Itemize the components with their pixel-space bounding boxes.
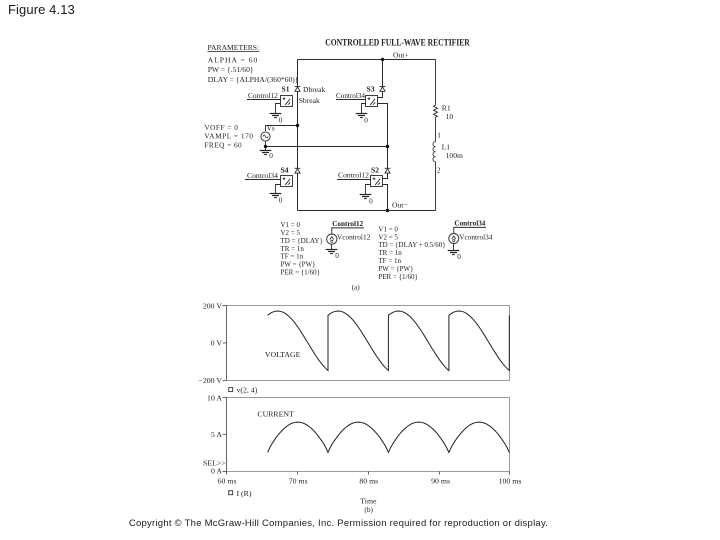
svg-text:Control34: Control34 bbox=[454, 219, 485, 228]
wire: top rail bbox=[298, 59, 436, 61]
svg-text:VAMPL = 170: VAMPL = 170 bbox=[204, 132, 253, 141]
svg-text:0: 0 bbox=[279, 116, 283, 125]
svg-text:SEL>>: SEL>> bbox=[203, 459, 226, 468]
figure caption bbox=[8, 2, 75, 17]
svg-text:CONTROLLED FULL-WAVE RECTIFIER: CONTROLLED FULL-WAVE RECTIFIER bbox=[325, 39, 470, 49]
svg-text:100m: 100m bbox=[446, 151, 463, 160]
svg-text:Control34: Control34 bbox=[247, 172, 278, 180]
svg-text:10: 10 bbox=[446, 112, 454, 121]
svg-text:PW = {.51/60}: PW = {.51/60} bbox=[208, 65, 254, 74]
switch S3 bbox=[366, 96, 378, 107]
diode D4 bbox=[295, 168, 301, 173]
svg-text:10 A: 10 A bbox=[207, 393, 222, 402]
svg-text:I (R): I (R) bbox=[237, 489, 252, 498]
wire: right leg upper (S3 branch) bbox=[378, 60, 383, 98]
svg-text:V1 = 0: V1 = 0 bbox=[378, 225, 398, 233]
diode D1 Dbreak bbox=[295, 87, 301, 92]
svg-text:V2 = 5: V2 = 5 bbox=[281, 229, 301, 237]
wire: right branch verticals bbox=[435, 60, 437, 106]
svg-text:VOLTAGE: VOLTAGE bbox=[265, 350, 301, 359]
svg-text:0: 0 bbox=[369, 197, 373, 206]
node junction dot top rail bbox=[381, 58, 384, 61]
y axis labels (current) bbox=[207, 393, 222, 475]
svg-text:TD = {DLAY}: TD = {DLAY} bbox=[281, 237, 323, 245]
svg-text:1: 1 bbox=[437, 130, 441, 139]
svg-text:PARAMETERS:: PARAMETERS: bbox=[208, 43, 260, 52]
svg-text:0: 0 bbox=[279, 196, 283, 205]
plot frame (voltage) bbox=[227, 306, 510, 381]
inductor L1 bbox=[433, 142, 436, 162]
ground (Vs) bbox=[265, 147, 267, 151]
source Vcontrol34 (VPULSE) bbox=[449, 234, 459, 244]
svg-text:200 V: 200 V bbox=[203, 301, 223, 310]
svg-text:TD = {DLAY + 0.5/60}: TD = {DLAY + 0.5/60} bbox=[378, 241, 445, 249]
svg-text:Control34: Control34 bbox=[336, 92, 365, 100]
svg-text:DLAY = {ALPHA/(360*60)}: DLAY = {ALPHA/(360*60)} bbox=[208, 75, 299, 84]
svg-text:80 ms: 80 ms bbox=[359, 477, 378, 486]
svg-text:ALPHA = 60: ALPHA = 60 bbox=[208, 55, 259, 64]
svg-text:100 ms: 100 ms bbox=[499, 477, 522, 486]
ground (S4) bbox=[276, 185, 281, 194]
svg-text:PER = {1/60}: PER = {1/60} bbox=[281, 269, 320, 277]
svg-text:Out+: Out+ bbox=[393, 51, 409, 60]
svg-text:TF = 1n: TF = 1n bbox=[378, 257, 401, 265]
diode D2 bbox=[385, 168, 391, 173]
svg-text:Control12: Control12 bbox=[338, 171, 369, 179]
svg-text:v(2, 4): v(2, 4) bbox=[237, 385, 258, 394]
copyright line bbox=[0, 518, 677, 529]
svg-text:0 A: 0 A bbox=[211, 467, 222, 476]
wire (label to source) bbox=[453, 227, 455, 233]
svg-text:−200 V: −200 V bbox=[198, 376, 222, 385]
wire: mid rail bbox=[266, 146, 388, 148]
svg-text:60 ms: 60 ms bbox=[218, 477, 237, 486]
svg-text:90 ms: 90 ms bbox=[431, 477, 450, 486]
svg-text:PW = {PW}: PW = {PW} bbox=[281, 261, 316, 269]
legend v(2, 4) bbox=[229, 388, 233, 392]
svg-text:CURRENT: CURRENT bbox=[257, 409, 294, 418]
ground (Vcontrol12) bbox=[331, 244, 333, 249]
resistor R1 bbox=[434, 105, 438, 117]
x ticks (current) bbox=[227, 472, 510, 475]
svg-text:Control12: Control12 bbox=[332, 219, 363, 228]
svg-text:2: 2 bbox=[437, 166, 441, 175]
svg-text:Vcontrol34: Vcontrol34 bbox=[459, 233, 493, 242]
x axis labels (time) bbox=[218, 477, 522, 486]
svg-text:S4: S4 bbox=[281, 165, 289, 174]
ground (S2) bbox=[366, 185, 371, 195]
Vcontrol34 parameter list bbox=[378, 225, 445, 281]
y ticks (voltage) bbox=[223, 306, 227, 381]
svg-text:S2: S2 bbox=[371, 165, 379, 174]
svg-text:TR = 1n: TR = 1n bbox=[281, 245, 305, 253]
svg-text:Dbreak: Dbreak bbox=[303, 85, 326, 94]
svg-text:VOFF = 0: VOFF = 0 bbox=[204, 123, 238, 132]
ground (S3) bbox=[362, 104, 366, 114]
ground (S1) bbox=[276, 104, 281, 114]
svg-text:0: 0 bbox=[364, 116, 368, 125]
svg-text:Out−: Out− bbox=[392, 201, 408, 210]
node junction dot (mid rail to S3/S2 leg) bbox=[386, 145, 389, 148]
svg-text:Vs: Vs bbox=[267, 124, 275, 133]
svg-text:PW = {PW}: PW = {PW} bbox=[378, 265, 413, 273]
svg-text:5 A: 5 A bbox=[211, 430, 222, 439]
y ticks (current) bbox=[223, 398, 227, 472]
svg-text:Control12: Control12 bbox=[248, 92, 278, 100]
ground (Vcontrol34) bbox=[453, 244, 455, 251]
wire: bottom rail bbox=[298, 210, 436, 212]
svg-text:S1: S1 bbox=[282, 85, 290, 94]
svg-text:V2 = 5: V2 = 5 bbox=[378, 233, 398, 241]
svg-text:PER = {1/60}: PER = {1/60} bbox=[378, 273, 417, 281]
legend I (R) bbox=[229, 491, 233, 495]
svg-text:70 ms: 70 ms bbox=[289, 477, 308, 486]
svg-text:Sbreak: Sbreak bbox=[299, 96, 320, 105]
trace v(2,4) bbox=[268, 311, 510, 371]
diode D3 bbox=[380, 87, 386, 92]
plot frame (current) bbox=[227, 398, 510, 472]
svg-text:0 V: 0 V bbox=[211, 339, 223, 348]
svg-text:(b): (b) bbox=[364, 505, 373, 514]
svg-text:0: 0 bbox=[335, 251, 339, 260]
svg-text:0: 0 bbox=[269, 151, 273, 160]
source Vcontrol12 (VPULSE) bbox=[327, 234, 337, 244]
svg-text:Vcontrol12: Vcontrol12 bbox=[337, 232, 371, 241]
switch S2 bbox=[371, 176, 383, 187]
Vcontrol12 parameter list bbox=[281, 221, 323, 276]
switch S4 bbox=[281, 176, 293, 187]
node junction dot bottom rail bbox=[386, 209, 389, 212]
svg-text:V1 = 0: V1 = 0 bbox=[281, 221, 301, 229]
source Vs (VSIN) bbox=[266, 126, 298, 132]
trace I(R) bbox=[268, 422, 510, 452]
wire: left leg bbox=[297, 60, 299, 211]
svg-text:TR = 1n: TR = 1n bbox=[378, 249, 402, 257]
svg-text:TF = 1n: TF = 1n bbox=[281, 253, 304, 261]
node junction dot (Vs-) bbox=[264, 145, 267, 148]
wire (label to source) bbox=[331, 228, 333, 234]
svg-text:R1: R1 bbox=[442, 103, 451, 112]
svg-text:S3: S3 bbox=[367, 85, 375, 94]
svg-text:(a): (a) bbox=[352, 282, 361, 291]
wire: right leg lower (S3 to S2 to rail) bbox=[378, 104, 388, 179]
switch S1 bbox=[281, 96, 293, 107]
svg-text:FREQ = 60: FREQ = 60 bbox=[204, 141, 242, 150]
node junction dot (Vs+ to S1/S4 leg) bbox=[296, 124, 299, 127]
wire: Vs bottom bbox=[265, 141, 267, 147]
svg-text:0: 0 bbox=[457, 252, 461, 261]
y axis labels (voltage) bbox=[198, 301, 222, 385]
